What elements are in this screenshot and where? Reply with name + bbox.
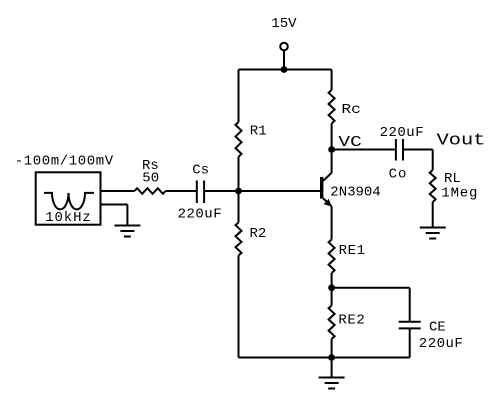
svg-text:1Meg: 1Meg: [441, 186, 478, 202]
svg-text:RE1: RE1: [339, 243, 366, 259]
svg-text:220uF: 220uF: [178, 207, 223, 223]
svg-text:R2: R2: [250, 226, 267, 242]
svg-text:R1: R1: [250, 124, 267, 140]
svg-text:Cs: Cs: [192, 162, 209, 178]
svg-text:220uF: 220uF: [380, 125, 425, 141]
svg-text:Vout: Vout: [437, 131, 486, 150]
svg-text:-100m/100mV: -100m/100mV: [15, 154, 114, 170]
svg-text:10kHz: 10kHz: [45, 210, 92, 226]
svg-text:Rc: Rc: [341, 102, 361, 118]
svg-text:220uF: 220uF: [419, 336, 464, 352]
svg-text:50: 50: [142, 170, 159, 186]
svg-text:RE2: RE2: [338, 312, 365, 328]
svg-text:VC: VC: [338, 134, 361, 151]
svg-text:Co: Co: [389, 167, 408, 183]
svg-text:CE: CE: [429, 319, 446, 335]
svg-text:15V: 15V: [271, 16, 297, 32]
svg-text:2N3904: 2N3904: [330, 184, 380, 200]
